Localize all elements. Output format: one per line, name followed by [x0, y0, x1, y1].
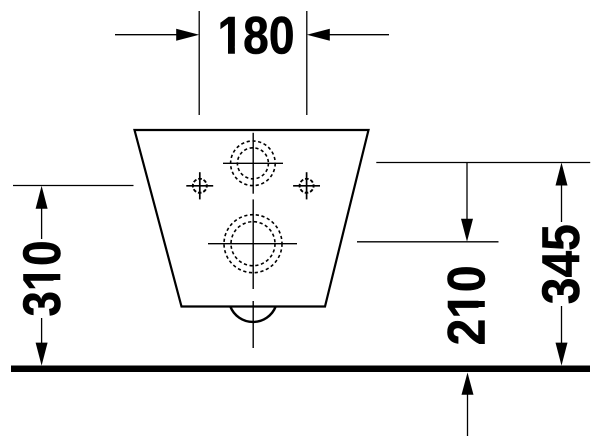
dim 180: left leader line and arrow — [115, 34, 178, 36]
dim 180: right leader line and arrow — [329, 34, 389, 36]
dim 210: lower leader below floor with up arrow — [462, 373, 474, 395]
masks to remove Liberation Sans foot serif on digit "1" (target uses footless 1) — [54, 46, 486, 316]
lower hole: horizontal centerline — [208, 243, 297, 245]
dim 180: left extension line — [198, 11, 200, 115]
outlet bulge arc below bottom edge — [230, 307, 275, 322]
svg-text:180: 180 — [218, 6, 295, 65]
svg-text:210: 210 — [438, 265, 497, 345]
dim 345: upper segment with up arrow — [556, 163, 568, 186]
floor line (thick) — [11, 366, 590, 373]
dim 180: right extension line — [306, 11, 308, 115]
right top extension line — [376, 162, 590, 164]
upper hole: horizontal centerline — [223, 162, 283, 164]
lower hole: inner dashed circle — [231, 222, 275, 266]
svg-text:310: 310 — [13, 241, 72, 317]
vertical centerline — [252, 133, 254, 348]
left fixing hole crosshair — [186, 172, 213, 199]
dim 310: dimension line upper segment with up arrow — [36, 186, 48, 209]
right fixing hole crosshair — [293, 172, 320, 199]
dim 345: lower segment with down arrow — [561, 306, 563, 345]
dim 210: extension line at outlet level — [357, 241, 499, 243]
dim 210: upper leader with down arrow — [466, 163, 468, 222]
upper hole: inner dashed circle — [237, 148, 268, 179]
toilet body outline (trapezoid) — [135, 130, 369, 307]
svg-text:345: 345 — [532, 224, 591, 304]
lower hole: outer dashed circle — [224, 215, 282, 273]
dim 310: top extension line — [13, 185, 134, 187]
upper hole: outer dashed circle — [231, 141, 276, 186]
dim 310: dimension line lower segment with down arrow — [41, 318, 43, 345]
